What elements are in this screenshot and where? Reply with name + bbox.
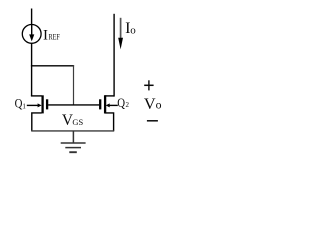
wire: current source output down to Q1 drain (31, 43, 33, 96)
transistor Q2 (NMOS, gate on left, mirror of Q1) (100, 95, 118, 113)
svg-text:GS: GS (72, 117, 83, 127)
svg-text:Q: Q (117, 96, 125, 110)
label Vo (144, 94, 162, 113)
current source IREF (circle with downward arrow) (22, 25, 41, 44)
wire: Q2 drain up to output terminal (113, 14, 115, 97)
label VGS (62, 112, 84, 129)
wire: Q2 source jog down to bottom rail (105, 113, 114, 131)
wire: Q1 drain jog (31, 95, 42, 97)
wire: gate riser vertical (73, 65, 75, 105)
label + (Vo positive terminal) (144, 80, 153, 90)
arrow Io (output current, downward) (118, 18, 123, 50)
svg-text:I: I (43, 27, 48, 43)
transistor Q1 (NMOS, gate on right) (27, 95, 47, 113)
svg-text:o: o (130, 24, 136, 36)
label Q1 (15, 96, 27, 110)
wire: diode connection top horizontal (Q1 drain node to gate riser) (31, 65, 74, 67)
svg-text:Q: Q (15, 96, 23, 110)
label Q2 (117, 96, 129, 110)
label IREF (43, 27, 60, 43)
svg-text:REF: REF (49, 32, 61, 41)
wire: common gate bus Q1-Q2 (48, 104, 99, 106)
svg-text:1: 1 (22, 102, 26, 110)
wire: bottom rail (common source node) (31, 130, 114, 132)
svg-text:o: o (156, 98, 162, 112)
ground (61, 131, 86, 152)
svg-text:V: V (62, 112, 73, 129)
wire: Q2 drain jog (105, 95, 115, 97)
label Io (125, 20, 136, 37)
svg-text:V: V (144, 94, 156, 113)
label - (Vo negative terminal) (147, 120, 158, 122)
svg-text:2: 2 (126, 101, 130, 109)
wire: Q1 source jog down to bottom rail (32, 113, 42, 131)
wire: top-left supply lead into current source (31, 9, 33, 26)
